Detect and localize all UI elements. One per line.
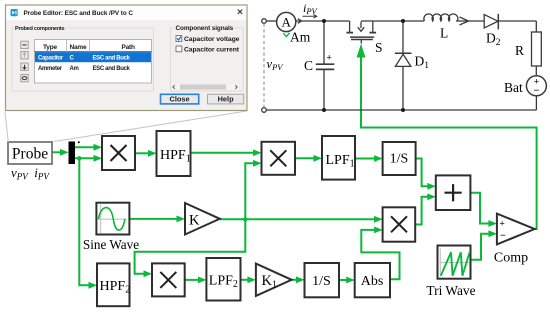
gate drive arrow into MOSFET: [357, 44, 366, 58]
svg-text:Name: Name: [70, 44, 87, 51]
arrowhead into X1 lower: [94, 155, 103, 162]
comparator Comp: [497, 214, 535, 245]
svg-text:Help: Help: [218, 94, 235, 103]
checkbox capacitor current (unchecked): [176, 46, 182, 52]
svg-text:K: K: [189, 213, 200, 229]
wire K1 to integrator 1/S row3: [292, 279, 298, 281]
svg-text:C: C: [304, 58, 313, 73]
svg-text:ESC and Buck: ESC and Buck: [93, 66, 131, 72]
block LPF2: [206, 258, 240, 301]
tri icon sawtooth: [441, 252, 470, 275]
block HPF2: [97, 263, 130, 306]
close button: [161, 94, 199, 104]
arrowhead into demux: [60, 149, 69, 156]
demux bar: [69, 142, 76, 165]
svg-text:Capacitor: Capacitor: [38, 56, 64, 62]
wire X4 out to Sum lower input: [415, 197, 429, 225]
diode D1: [395, 21, 412, 110]
terminal top-left: [262, 19, 267, 24]
wire Abs out loop to X4 lower input: [361, 230, 399, 279]
tri icon axes: [439, 249, 441, 277]
block Abs: [355, 263, 390, 297]
X2 cross: [270, 150, 286, 166]
svg-text:Am: Am: [70, 66, 79, 72]
arrowhead into LPF1: [314, 155, 323, 162]
diode D2: [484, 14, 536, 30]
wire mosfet to node2: [361, 20, 403, 22]
callout right line: [54, 111, 247, 142]
wire K to X4 upper input: [220, 218, 376, 220]
svg-text:1/S: 1/S: [312, 274, 331, 289]
sine icon axes: [100, 205, 102, 234]
svg-text:iPV: iPV: [303, 1, 319, 16]
arrowhead into X4 lower: [374, 227, 383, 234]
integrator 1/S row3: [305, 263, 340, 297]
wire X3 to LPF2: [185, 279, 200, 281]
svg-text:Probe Editor: ESC and Buck /PV: Probe Editor: ESC and Buck /PV to C: [24, 10, 134, 17]
svg-text:1/S: 1/S: [390, 152, 409, 167]
svg-text:ESC and Buck: ESC and Buck: [93, 56, 131, 62]
arrowhead into X2 lower: [253, 160, 262, 167]
svg-text:+: +: [500, 219, 505, 229]
arrowhead into X3 upper: [144, 270, 153, 277]
svg-text:+: +: [327, 53, 332, 63]
dot next to demux: [78, 141, 80, 143]
side buttons: [21, 41, 28, 82]
gain K: [185, 203, 220, 235]
multiplier X1: [102, 136, 135, 170]
wire ammeter to node: [296, 20, 324, 22]
svg-text:Probed components: Probed components: [15, 26, 64, 32]
wire 1/S row3 to Abs: [339, 279, 348, 281]
wire Demux out2 to X1 lower: [75, 157, 95, 159]
X glyphs inside multipliers: [111, 145, 462, 288]
close X: [238, 10, 242, 14]
svg-text:Type: Type: [43, 44, 57, 51]
arrowhead into X2 upper: [253, 149, 262, 156]
wire X1 to HPF1: [135, 152, 150, 154]
arrowhead into sum lower: [427, 193, 436, 200]
arrowhead into 1/S row1: [374, 155, 383, 162]
wire 1/S to Sum upper input: [416, 159, 429, 187]
X3 cross: [160, 272, 176, 288]
svg-text:vPV: vPV: [267, 57, 285, 72]
svg-text:vPV iPV: vPV iPV: [11, 165, 50, 182]
wire junction down loop to X3 upper input: [135, 219, 246, 273]
resistor R: [532, 21, 542, 76]
dashed vPV measurement line: [263, 24, 265, 108]
wire HPF1 to X2 upper: [191, 152, 255, 154]
sine wave icon: [98, 205, 126, 234]
junction dot vPV branch: [77, 156, 81, 160]
svg-text:L: L: [440, 26, 448, 41]
title bar: [6, 6, 246, 20]
arrowhead into HPF2: [89, 282, 98, 289]
iPV arrow under label: [303, 14, 317, 18]
wire LPF1 to integrator 1/S: [355, 158, 376, 160]
X1 cross: [111, 145, 127, 161]
callout left line: [5, 112, 8, 143]
svg-text:Capacitor current: Capacitor current: [184, 47, 240, 54]
X4 cross: [391, 216, 407, 232]
circuit junction dots: [322, 19, 405, 112]
arrowhead into Abs: [346, 277, 355, 284]
arrow on wire iPV: [298, 19, 302, 24]
sine icon curve: [98, 208, 125, 231]
svg-text:D1: D1: [415, 54, 430, 72]
junction dot K output: [243, 217, 247, 221]
node dot cap top: [322, 19, 326, 23]
multiplier X2: [262, 142, 296, 175]
sum block: [436, 175, 471, 210]
svg-text:−: −: [533, 86, 539, 97]
arrowhead into comp plus input: [488, 220, 497, 227]
block HPF1: [157, 131, 191, 176]
integrator 1/S row1: [383, 142, 416, 175]
wire node to mosfet: [324, 20, 350, 22]
bottom rail: [266, 109, 536, 111]
gain K1: [256, 264, 292, 296]
terminal bottom-left: [262, 108, 267, 113]
node dot cap bottom: [322, 108, 326, 112]
arrowhead into HPF1: [148, 150, 157, 157]
group box component signals: [171, 28, 244, 91]
svg-text:R: R: [515, 43, 524, 58]
wire Comp output feedback to MOSFET gate: [361, 52, 537, 229]
arrowhead into LPF2: [198, 277, 207, 284]
arrowhead into X4 upper: [374, 216, 383, 223]
svg-text:D2: D2: [486, 31, 501, 49]
table: [35, 40, 152, 84]
arrowhead into gain K1: [247, 276, 256, 283]
svg-text:Abs: Abs: [361, 274, 384, 289]
arrowhead into comp minus input: [488, 230, 497, 237]
tri wave icon: [440, 249, 470, 277]
multiplier X3: [152, 263, 185, 296]
arrowhead into X1 upper: [94, 144, 103, 151]
checkbox capacitor voltage (checked): [176, 36, 182, 42]
svg-text:Component signals: Component signals: [176, 25, 234, 32]
arrowhead into gain K: [177, 216, 186, 223]
ammeter Am circle: [277, 12, 296, 31]
mosfet S: [346, 21, 376, 44]
svg-text:−: −: [500, 231, 506, 242]
multiplier X4 row2: [383, 207, 416, 241]
wire Demux out1 to X1 upper: [75, 146, 95, 148]
svg-text:S: S: [375, 40, 383, 55]
block LPF1: [322, 136, 355, 180]
wire Sine Wave to K: [129, 218, 178, 220]
arrowhead into 1/S row3: [296, 276, 305, 283]
capacitor C: [316, 21, 335, 110]
block Sine Wave: [96, 203, 129, 235]
wire junction vertical up to X2 lower input: [245, 163, 254, 219]
arrowhead into sum upper: [427, 183, 436, 190]
wire X2 to LPF1: [295, 157, 315, 159]
wire to ammeter: [266, 20, 276, 22]
wire Tri Wave to Comp lower input: [471, 234, 490, 260]
svg-text:Tri Wave: Tri Wave: [426, 283, 475, 298]
svg-text:Sine Wave: Sine Wave: [83, 237, 139, 252]
block Tri Wave: [438, 246, 471, 279]
svg-text:Close: Close: [170, 94, 190, 103]
inductor L: [403, 14, 484, 25]
dialog frame: [6, 5, 248, 111]
selected row: [35, 52, 151, 62]
svg-text:Bat: Bat: [504, 80, 523, 95]
node dot d1 top: [401, 19, 405, 23]
dialog icon: [11, 9, 18, 16]
svg-text:Comp: Comp: [494, 251, 528, 266]
wire Sum to Comp upper input: [470, 193, 490, 224]
plus glyph in sum: [445, 192, 462, 194]
svg-text:Am: Am: [290, 30, 311, 45]
wire Probe to Demux: [52, 151, 63, 153]
battery Bat: [526, 76, 546, 110]
wire vPV branch down to HPF2: [79, 158, 90, 285]
wire LPF2 to K1: [241, 279, 249, 281]
svg-text:A: A: [282, 15, 292, 30]
svg-text:Capacitor voltage: Capacitor voltage: [184, 36, 240, 43]
group box probed components: [12, 28, 154, 91]
svg-text:Ammeter: Ammeter: [38, 66, 63, 72]
horizontal scrollbar: [172, 84, 239, 90]
svg-text:Path: Path: [122, 44, 136, 51]
svg-text:Probe: Probe: [12, 146, 48, 163]
green probe check below ammeter: [283, 33, 289, 37]
help button: [208, 94, 244, 104]
node dot d1 bottom: [401, 108, 405, 112]
block Probe: [8, 142, 52, 164]
